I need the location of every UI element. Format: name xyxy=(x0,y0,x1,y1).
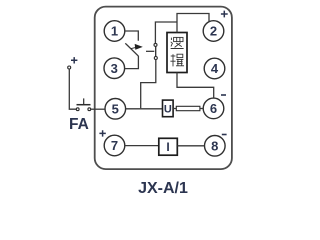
contact point upper xyxy=(154,43,157,46)
terminal 5 xyxy=(105,99,126,120)
terminal 3 xyxy=(104,58,125,79)
wire lower contact to node B xyxy=(141,60,156,109)
terminal 7 xyxy=(104,135,125,156)
contact point lower xyxy=(154,57,157,60)
svg-text:8: 8 xyxy=(211,138,218,153)
svg-text:JX-A/1: JX-A/1 xyxy=(138,180,188,197)
FA supply terminal dot xyxy=(68,66,71,69)
blade arrow xyxy=(131,45,142,50)
wire resistor to terminal6 xyxy=(200,108,203,110)
svg-text:3: 3 xyxy=(111,61,118,76)
terminal 6 xyxy=(203,98,224,119)
wire terminal7 to I element xyxy=(125,145,159,147)
terminal 2 xyxy=(203,21,224,42)
contact blade K1 xyxy=(125,43,138,56)
wire upper contact to logic node xyxy=(155,22,177,43)
svg-text:FA: FA xyxy=(69,116,89,133)
svg-text:2: 2 xyxy=(210,24,217,39)
wire supply to FA button xyxy=(69,69,76,109)
wire blade to terminal3 xyxy=(125,56,139,69)
wire logic to terminal6 xyxy=(177,73,214,99)
logic glyph ji xyxy=(170,54,184,66)
current element I box xyxy=(159,138,178,155)
actuator stub xyxy=(146,50,154,52)
svg-text:1: 1 xyxy=(111,24,118,39)
relay case outline xyxy=(95,7,232,170)
wire I to terminal8 xyxy=(177,145,204,147)
fixed contact bar xyxy=(155,46,157,57)
logic glyph luo xyxy=(171,37,184,48)
minus mark terminal6 xyxy=(221,94,226,96)
resistor R1 xyxy=(176,106,200,110)
terminal 4 xyxy=(204,58,225,79)
svg-text:6: 6 xyxy=(210,101,217,116)
wire FA to terminal5 xyxy=(91,108,105,110)
minus mark terminal8 xyxy=(222,134,227,136)
wire U to resistor xyxy=(173,108,176,110)
svg-text:I: I xyxy=(166,140,169,154)
svg-text:U: U xyxy=(164,104,172,116)
wire terminal1 to contact xyxy=(125,31,138,41)
FA contact right xyxy=(88,108,91,111)
plus mark terminal7 xyxy=(99,130,105,136)
FA contact left xyxy=(76,108,79,111)
voltage element U box xyxy=(163,100,174,117)
terminal 1 xyxy=(104,21,125,42)
plus mark FA supply xyxy=(71,57,77,63)
svg-text:5: 5 xyxy=(112,101,119,116)
FA button stem xyxy=(83,98,85,104)
plus mark terminal2 xyxy=(221,11,228,18)
svg-text:7: 7 xyxy=(111,138,118,153)
svg-text:4: 4 xyxy=(211,61,219,76)
terminal 8 xyxy=(205,136,226,157)
wire logic to terminal2 xyxy=(177,14,209,33)
wire terminal5 to U element xyxy=(126,108,163,110)
logic unit U1 box xyxy=(167,33,187,73)
FA button bridge xyxy=(77,104,91,106)
